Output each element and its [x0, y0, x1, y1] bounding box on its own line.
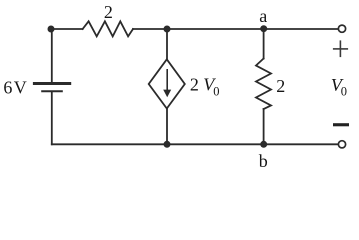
svg-text:0: 0	[213, 84, 219, 98]
svg-text:2: 2	[276, 76, 285, 96]
svg-text:2: 2	[104, 2, 113, 22]
svg-text:0: 0	[341, 85, 347, 99]
svg-text:b: b	[259, 151, 268, 170]
svg-text:6: 6	[3, 77, 12, 97]
svg-text:a: a	[259, 6, 267, 26]
svg-text:2: 2	[190, 75, 199, 95]
svg-text:V: V	[14, 77, 27, 97]
